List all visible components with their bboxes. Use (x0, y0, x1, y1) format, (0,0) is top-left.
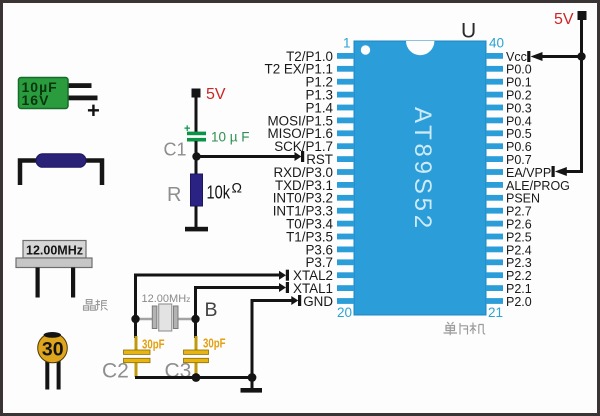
5V supply terminal (right) (554, 11, 587, 28)
svg-text:21: 21 (488, 305, 503, 320)
svg-text:R: R (167, 184, 181, 206)
svg-text:P0.4: P0.4 (506, 114, 532, 128)
svg-text:Vcc: Vcc (506, 50, 527, 64)
arrow into RST pin (295, 151, 305, 162)
arrow into XTAL2 pin (279, 270, 289, 281)
svg-text:5V: 5V (206, 86, 226, 103)
svg-text:40: 40 (489, 36, 504, 51)
arrow into XTAL1 pin (279, 282, 289, 293)
svg-text:10k: 10k (207, 183, 231, 203)
wire R to ground (195, 206, 198, 228)
svg-text:P2.0: P2.0 (506, 295, 532, 309)
svg-text:+: + (87, 98, 100, 123)
svg-text:U: U (461, 20, 476, 43)
svg-text:GND: GND (303, 294, 333, 309)
op IC body AT89S52 U (354, 41, 486, 315)
wire 5V to C1 (195, 96, 198, 132)
arrow into EA/VPP pin (552, 166, 567, 177)
node B (191, 315, 199, 323)
IC right pins rows (486, 53, 503, 304)
svg-text:EA/VPP: EA/VPP (506, 166, 551, 180)
disc capacitor photo 30 (38, 332, 68, 390)
svg-text:PSEN: PSEN (506, 192, 540, 206)
svg-text:Ω: Ω (232, 180, 242, 196)
svg-text:12.00MHz: 12.00MHz (26, 244, 83, 258)
label jingzhen (crystal) (84, 300, 108, 311)
arrow into Vcc pin (527, 51, 542, 62)
IC right pin labels (506, 50, 570, 309)
capacitor C1 10uF (164, 123, 250, 160)
IC left pins rows (337, 53, 354, 304)
resistor R 10k (167, 174, 242, 206)
junction GND on rail (248, 373, 257, 382)
svg-text:30pF: 30pF (142, 338, 165, 352)
svg-text:C2: C2 (102, 360, 129, 383)
wire node to C2 (134, 319, 138, 377)
svg-text:P2.4: P2.4 (506, 243, 532, 257)
svg-text:10 µ F: 10 µ F (211, 130, 250, 145)
svg-text:P0.2: P0.2 (506, 89, 532, 103)
svg-text:C1: C1 (164, 140, 187, 160)
svg-text:20: 20 (337, 305, 352, 320)
svg-text:1: 1 (343, 36, 351, 51)
wire node to RST (196, 155, 296, 158)
wire EA/VPP to rail (566, 170, 583, 173)
crystal Y1 12.00MHz (135, 293, 196, 331)
svg-text:P0.5: P0.5 (506, 127, 532, 141)
5V supply terminal (reset circuit) (192, 86, 226, 103)
junction C3 on rail (192, 373, 201, 382)
wire Vcc to rail (542, 55, 583, 58)
node junction at C1/R (192, 152, 200, 160)
svg-text:12.00MHz: 12.00MHz (142, 293, 191, 305)
svg-text:30pF: 30pF (203, 337, 226, 351)
wire node B to C3 (194, 319, 198, 377)
node left of crystal (131, 315, 139, 323)
svg-text:P0.0: P0.0 (506, 63, 532, 77)
svg-text:P2.5: P2.5 (506, 230, 532, 244)
resistor photo (navy pill) (20, 154, 102, 185)
crystal photo 12.00MHz (16, 241, 92, 298)
wire C1 to node (195, 141, 198, 176)
svg-text:C3: C3 (165, 360, 192, 383)
svg-text:30: 30 (42, 339, 64, 361)
wire ground rail (135, 376, 252, 379)
svg-text:P2.6: P2.6 (506, 218, 532, 232)
svg-text:P2.3: P2.3 (506, 256, 532, 270)
svg-text:B: B (205, 299, 218, 321)
wire XTAL1 net (196, 286, 280, 319)
svg-text:5V: 5V (554, 11, 574, 28)
svg-text:AT89S52: AT89S52 (409, 107, 436, 232)
wire XTAL2 net (136, 274, 280, 320)
svg-text:P0.7: P0.7 (506, 153, 532, 167)
arrow into GND pin (291, 295, 301, 306)
label danpianji (microcontroller) (444, 322, 486, 335)
svg-text:P0.6: P0.6 (506, 140, 532, 154)
ground below R (185, 227, 208, 232)
svg-text:P2.1: P2.1 (506, 282, 532, 296)
junction on rail at Vcc (577, 52, 585, 60)
svg-text:16V: 16V (22, 92, 50, 108)
capacitor photo 10uF 16V (19, 78, 100, 124)
wire GND net (252, 299, 293, 378)
ground symbol bottom (241, 378, 263, 393)
capacitor C2 30pF (102, 338, 165, 383)
IC left pin labels (265, 49, 334, 309)
svg-text:ALE/PROG: ALE/PROG (506, 179, 570, 193)
svg-text:P0.1: P0.1 (506, 76, 532, 90)
svg-text:P2.7: P2.7 (506, 205, 532, 219)
svg-text:P0.3: P0.3 (506, 101, 532, 115)
capacitor C3 30pF (165, 337, 226, 383)
wire 5V vertical rail (580, 19, 583, 172)
svg-text:P2.2: P2.2 (506, 269, 532, 283)
